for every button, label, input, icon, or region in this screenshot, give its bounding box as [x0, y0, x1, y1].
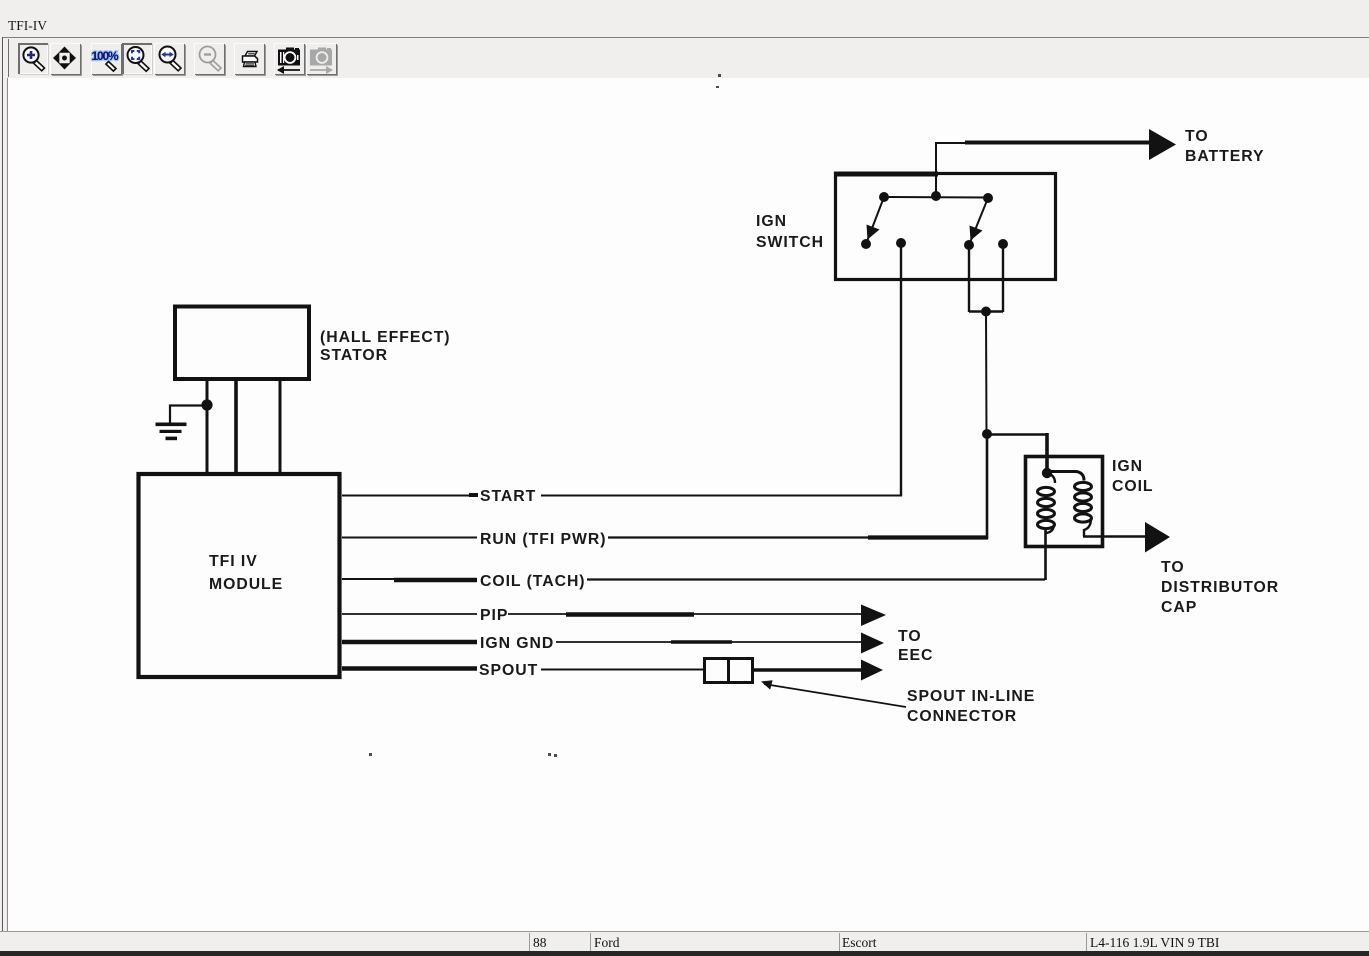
zoom-in button (pressed) [18, 43, 48, 74]
label (HALL EFFECT) STATOR [320, 329, 451, 364]
zoom-width button [154, 43, 184, 74]
svg-text:(HALL EFFECT): (HALL EFFECT) [320, 329, 451, 346]
wire IGN GND [342, 640, 861, 644]
wire START horizontal [342, 495, 902, 497]
wire SPOUT left [342, 669, 704, 670]
stator wire 3 [279, 381, 282, 472]
wire PIP [342, 613, 861, 616]
switch blade 2 [969, 198, 988, 245]
previous-image (camera left) button [274, 43, 304, 74]
label SPOUT IN-LINE CONNECTOR [907, 688, 1035, 725]
label IGN COIL [1112, 458, 1154, 495]
contact B1 [879, 192, 889, 202]
svg-text:TO: TO [898, 628, 922, 645]
svg-text:MODULE: MODULE [209, 576, 283, 593]
print button [234, 43, 264, 74]
contact B2 [931, 191, 941, 201]
wire joining drops [969, 310, 1003, 312]
ground branch wire [170, 406, 207, 425]
wire SPOUT right [753, 668, 861, 672]
ground junction dot [201, 399, 212, 410]
svg-text:IGN GND: IGN GND [480, 635, 554, 652]
switch blade 1 [866, 197, 884, 244]
wire F drop [968, 245, 970, 312]
svg-text:IGN: IGN [1112, 458, 1143, 475]
scan noise specks [369, 74, 721, 757]
bus wire across top contacts [884, 196, 988, 199]
wire START drop [900, 243, 902, 496]
svg-text:SWITCH: SWITCH [756, 234, 824, 251]
primary winding [1038, 473, 1056, 580]
svg-text:COIL (TACH): COIL (TACH) [480, 573, 586, 590]
svg-text:EEC: EEC [898, 647, 933, 664]
arrowhead to battery [1149, 129, 1176, 160]
svg-text:SPOUT: SPOUT [479, 662, 538, 679]
svg-text:SPOUT IN-LINE: SPOUT IN-LINE [907, 688, 1035, 705]
stator wire 1 [206, 381, 209, 472]
arrowhead IGN GND to EEC [861, 633, 884, 654]
SPOUT in-line connector [705, 659, 753, 683]
contact G (RUN feed) [998, 239, 1008, 249]
IGN COIL box [1026, 457, 1103, 547]
label TO EEC [898, 628, 933, 664]
ground symbol [156, 423, 187, 441]
IGN SWITCH box [834, 174, 1056, 280]
toolbar buttons [0, 38, 1369, 78]
secondary winding [1047, 472, 1146, 537]
junction I [982, 429, 992, 439]
svg-text:COIL: COIL [1112, 478, 1154, 495]
zoom-out button (disabled) [194, 43, 224, 74]
zoom-to-region button (pressed) [122, 43, 152, 74]
contact F (switch2 throw) [964, 240, 974, 250]
svg-text:DISTRIBUTOR: DISTRIBUTOR [1161, 579, 1279, 596]
100% zoom button [91, 43, 121, 74]
wire I down to RUN [986, 434, 989, 539]
wire RUN horizontal [342, 537, 988, 539]
svg-text:BATTERY: BATTERY [1185, 148, 1265, 165]
junction H [981, 307, 991, 317]
wire battery feed [936, 143, 1151, 197]
contact E (START feed) [896, 238, 906, 248]
wire H to I [985, 311, 988, 434]
label IGN SWITCH [756, 213, 824, 251]
label TO DISTRIBUTOR CAP [1161, 559, 1279, 616]
arrowhead to distributor [1145, 522, 1170, 553]
stator wire 2 [234, 381, 238, 472]
wire COIL(TACH) [342, 579, 1045, 580]
label TO BATTERY [1185, 128, 1265, 165]
svg-text:IGN: IGN [756, 213, 787, 230]
svg-text:PIP: PIP [480, 607, 508, 624]
svg-text:RUN (TFI PWR): RUN (TFI PWR) [480, 531, 606, 548]
wire G drop [1002, 244, 1004, 312]
svg-text:TO: TO [1185, 128, 1209, 145]
wire stub at START label [469, 493, 478, 497]
svg-text:STATOR: STATOR [320, 347, 388, 364]
TFI IV MODULE box [139, 474, 340, 677]
svg-text:TFI IV: TFI IV [209, 553, 258, 570]
arrowhead SPOUT to EEC [861, 660, 883, 681]
HALL EFFECT STATOR box [175, 307, 309, 380]
svg-text:START: START [480, 488, 536, 505]
next-image (camera right, disabled) button [306, 43, 336, 74]
coil junction dot [1042, 468, 1052, 478]
contact D (switch1 throw) [861, 239, 871, 249]
pan button [50, 43, 80, 74]
leader line to connector [761, 680, 906, 707]
svg-text:CAP: CAP [1161, 599, 1197, 616]
svg-text:CONNECTOR: CONNECTOR [907, 708, 1017, 725]
svg-text:TO: TO [1161, 559, 1185, 576]
arrowhead PIP to EEC [861, 605, 886, 627]
wire I to coil [987, 433, 1048, 473]
contact B3 [983, 193, 993, 203]
label TFI IV MODULE [209, 553, 283, 593]
